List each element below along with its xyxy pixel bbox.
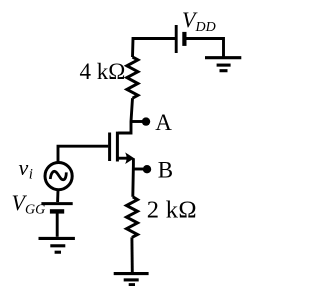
node A stub xyxy=(131,120,143,123)
wire gate lead xyxy=(58,146,108,162)
svg-text:VDD: VDD xyxy=(182,7,216,35)
svg-text:4 kΩ: 4 kΩ xyxy=(80,59,126,84)
battery VDD long plate xyxy=(175,25,178,53)
battery VGG long plate xyxy=(41,202,72,205)
node A junction dot xyxy=(142,117,150,125)
wire vi to VGG battery xyxy=(56,190,59,202)
ground (VDD return) xyxy=(205,58,241,71)
svg-text:2 kΩ: 2 kΩ xyxy=(147,197,197,224)
ground (input return) xyxy=(39,238,75,252)
wire top rail from drain resistor to VDD battery xyxy=(133,39,176,58)
transistor Q1 source arrow xyxy=(125,152,134,164)
wire VGG battery to ground xyxy=(56,214,59,237)
source vi AC circle xyxy=(45,163,72,190)
transistor Q1 channel xyxy=(116,132,119,162)
battery VGG short plate xyxy=(50,209,64,213)
node B stub xyxy=(133,168,143,171)
sine symbol inside vi xyxy=(50,171,66,179)
svg-text:B: B xyxy=(158,158,173,183)
wire from VDD battery to ground xyxy=(186,39,224,57)
ground (source return) xyxy=(114,274,149,285)
resistor R2 2 kOhm xyxy=(127,197,138,238)
transistor Q1 source lead xyxy=(117,157,130,160)
wire source to 2k resistor with node B tap xyxy=(131,158,134,197)
battery VDD short plate xyxy=(182,32,186,46)
svg-text:vi: vi xyxy=(19,155,33,182)
svg-text:A: A xyxy=(155,110,172,135)
wire drain lead with node A tap xyxy=(118,98,133,133)
svg-text:VGG: VGG xyxy=(12,190,46,218)
resistor R1 4 kOhm xyxy=(127,57,138,98)
transistor Q1 gate bar xyxy=(108,133,111,162)
wire 2k resistor to ground xyxy=(130,237,133,272)
node B junction dot xyxy=(143,165,151,173)
